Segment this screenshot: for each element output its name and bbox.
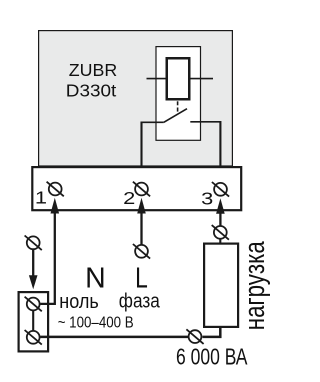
svg-text:фаза: фаза [119,291,161,313]
svg-text:~ 100–400 В: ~ 100–400 В [58,315,134,332]
svg-text:2: 2 [123,189,135,208]
svg-text:ноль: ноль [59,291,99,313]
svg-text:6 000 ВА: 6 000 ВА [176,344,248,370]
svg-text:D330t: D330t [66,80,117,100]
svg-text:L: L [135,263,148,294]
svg-text:ZUBR: ZUBR [69,60,118,80]
svg-text:нагрузка: нагрузка [239,241,271,331]
svg-text:1: 1 [35,188,47,207]
svg-text:3: 3 [201,189,213,208]
svg-text:N: N [85,262,106,294]
